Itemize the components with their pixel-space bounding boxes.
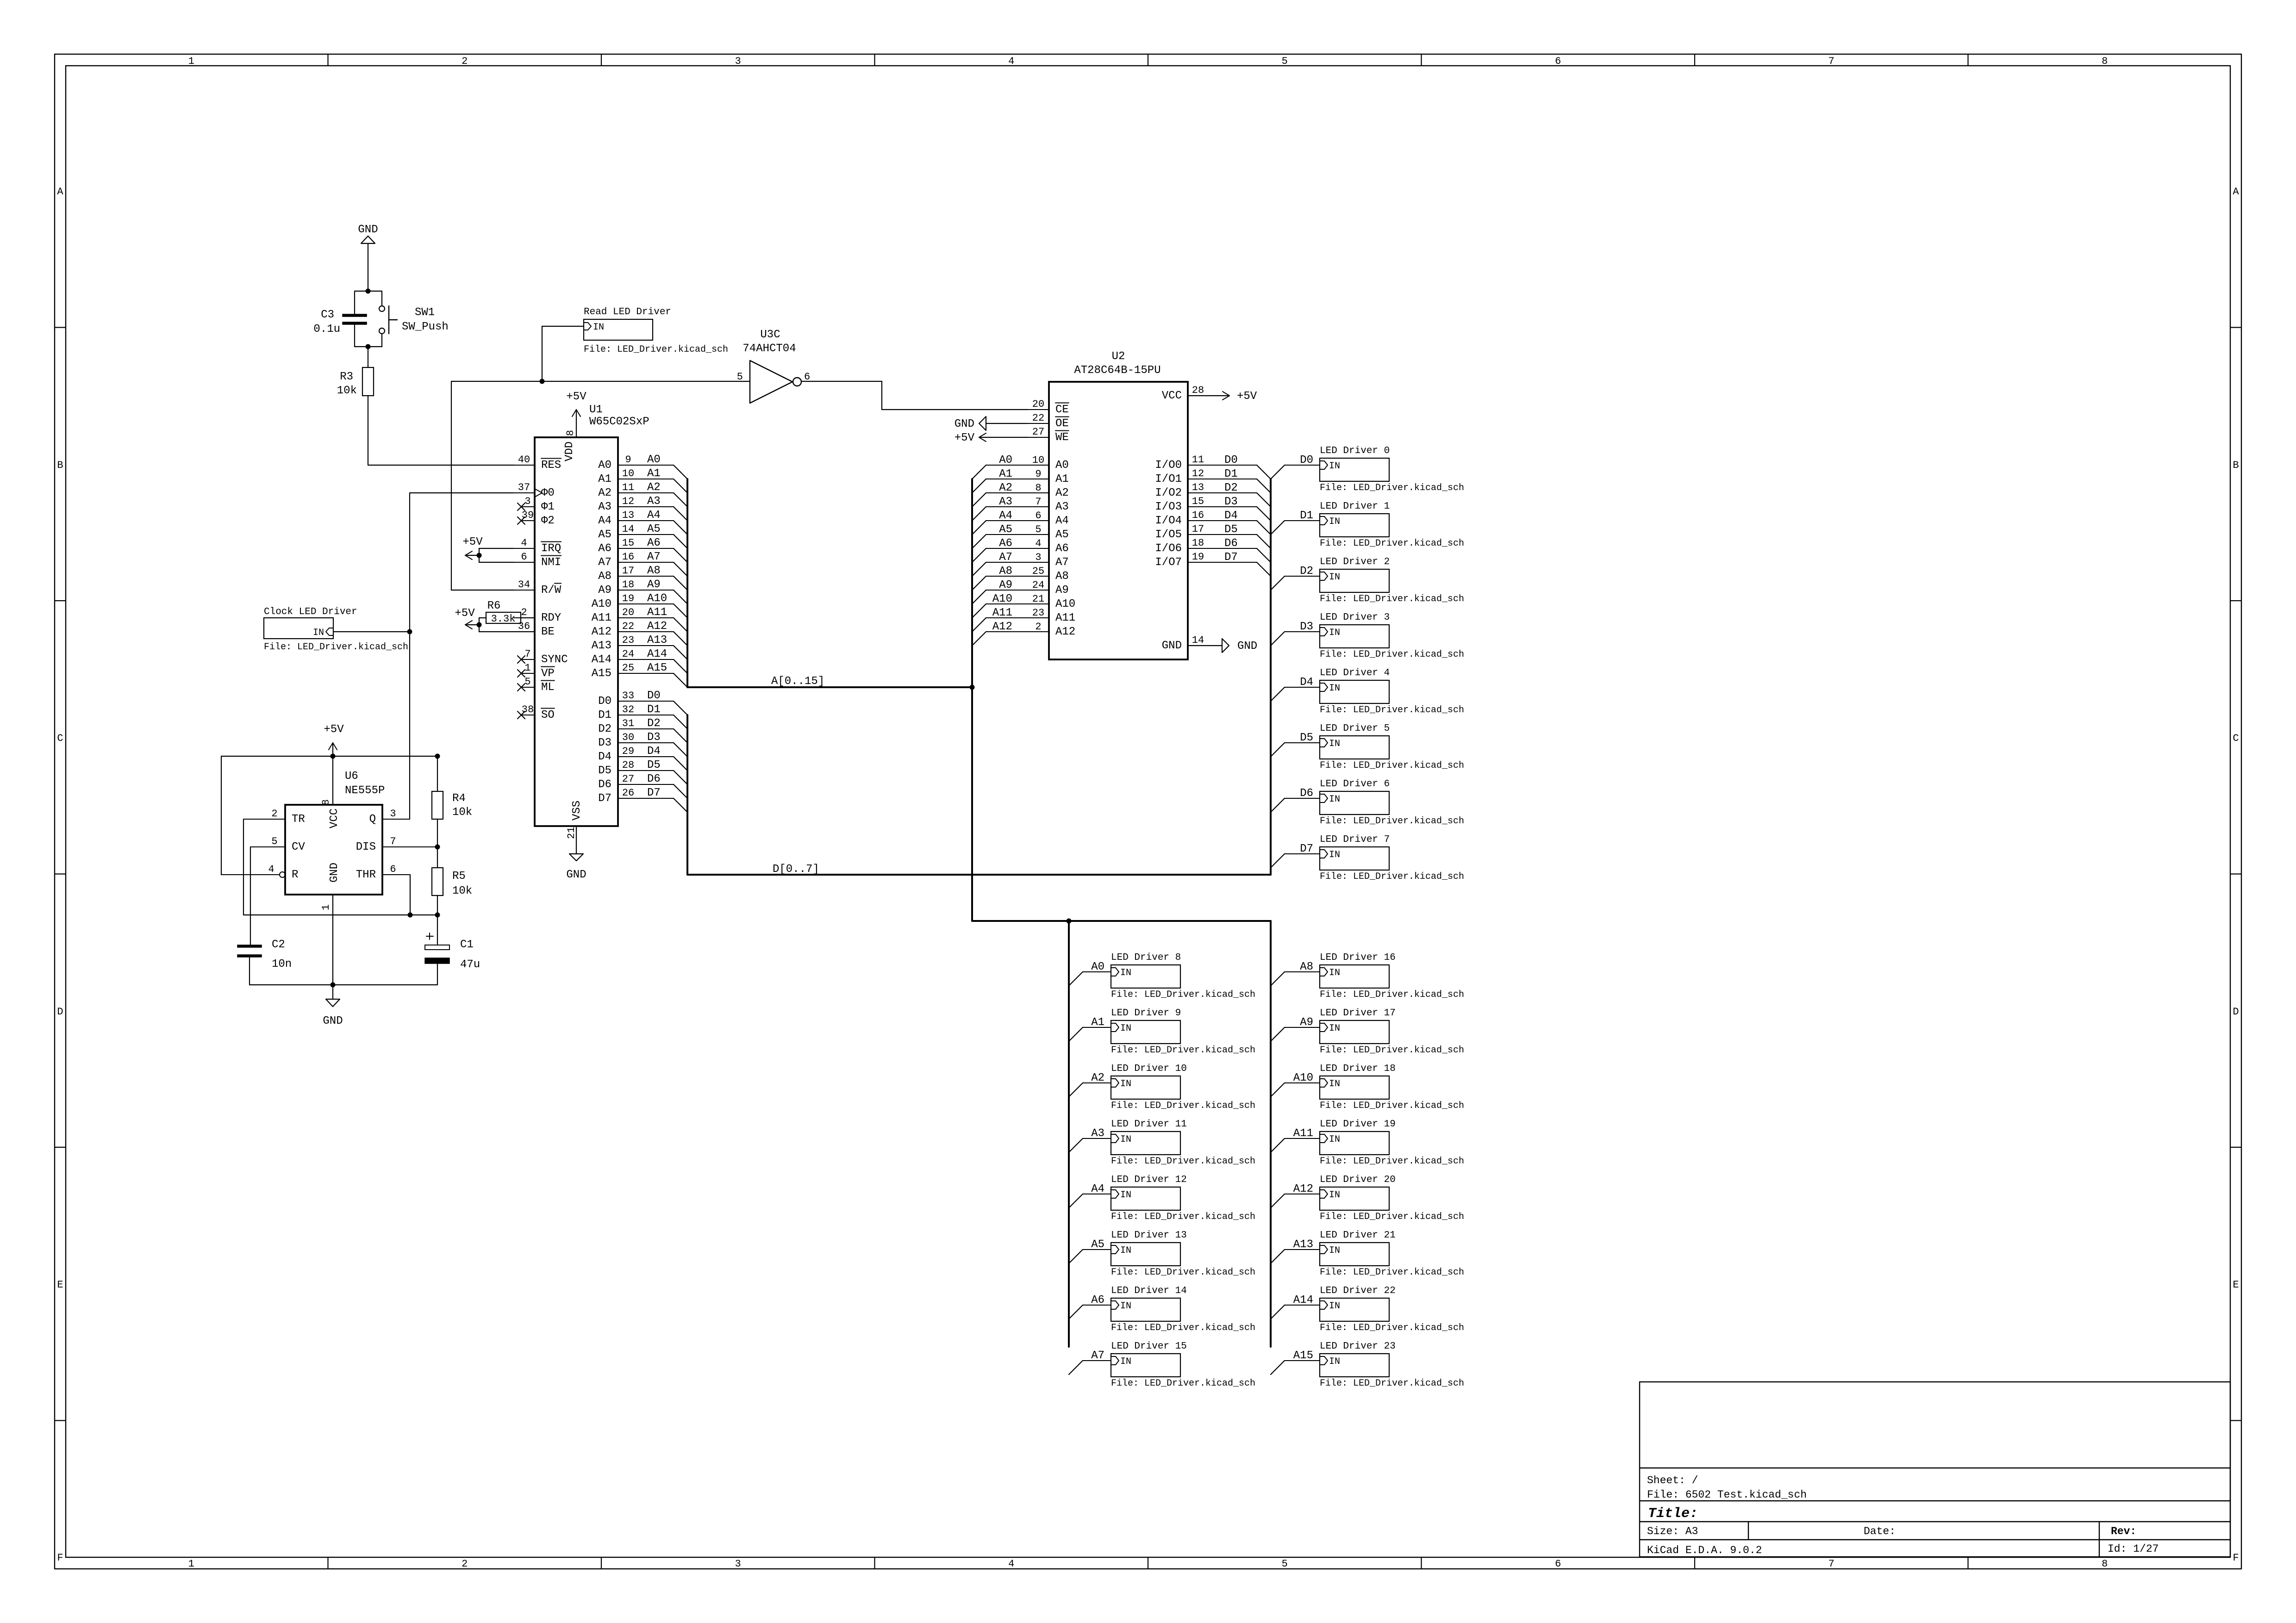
U1 pin 9 A0 <box>598 454 687 479</box>
svg-text:+5V: +5V <box>324 723 344 736</box>
sheet LED Driver 23 <box>1320 1341 1464 1389</box>
U1 pin 23 A13 <box>592 634 687 659</box>
svg-text:RES: RES <box>541 459 561 472</box>
svg-text:74AHCT04: 74AHCT04 <box>742 342 796 355</box>
svg-text:A7: A7 <box>999 551 1012 564</box>
svg-text:IN: IN <box>1120 968 1131 978</box>
U1 pin 2 RDY <box>514 607 561 624</box>
svg-text:GND: GND <box>323 1015 343 1027</box>
svg-text:D2: D2 <box>1224 482 1238 494</box>
U1 pin 37 Φ0 <box>514 482 555 499</box>
U6 pin 6 THR <box>356 864 410 881</box>
svg-text:D1: D1 <box>647 703 661 716</box>
wire inverter input <box>451 381 750 382</box>
wire RES net <box>368 465 514 466</box>
svg-text:U6: U6 <box>345 770 358 783</box>
svg-text:10: 10 <box>622 468 634 479</box>
svg-text:3: 3 <box>735 56 741 67</box>
U2 pin 25 A8 <box>972 565 1069 590</box>
resistor R5 10k <box>432 868 472 897</box>
svg-text:IRQ: IRQ <box>541 542 561 555</box>
svg-text:IN: IN <box>1329 628 1340 638</box>
svg-text:R4: R4 <box>452 792 466 805</box>
svg-text:LED Driver 20: LED Driver 20 <box>1320 1175 1396 1185</box>
svg-text:D7: D7 <box>1300 843 1313 855</box>
svg-text:26: 26 <box>622 787 634 799</box>
svg-text:5: 5 <box>524 676 530 688</box>
svg-text:4: 4 <box>1008 1558 1014 1570</box>
svg-text:I/O7: I/O7 <box>1155 556 1182 569</box>
U2 pin 18 I/O6 <box>1155 537 1271 562</box>
svg-text:Title:: Title: <box>1648 1506 1698 1522</box>
svg-text:A0: A0 <box>1091 961 1104 973</box>
resistor R4 10k <box>432 756 472 819</box>
svg-text:A1: A1 <box>647 467 661 480</box>
svg-text:A11: A11 <box>647 606 667 619</box>
U6 pin 5 CV <box>250 836 305 853</box>
junction DIS <box>435 845 440 850</box>
svg-text:A6: A6 <box>647 537 661 549</box>
U2 pin 20 CE <box>1028 398 1069 416</box>
svg-text:A12: A12 <box>592 626 611 638</box>
svg-text:16: 16 <box>1192 510 1204 521</box>
svg-text:28: 28 <box>622 759 634 771</box>
U1 pin 31 D2 <box>598 717 687 743</box>
svg-text:GND: GND <box>1237 640 1257 653</box>
svg-text:LED Driver 17: LED Driver 17 <box>1320 1008 1396 1019</box>
svg-text:C2: C2 <box>272 939 285 951</box>
U1 pin 33 D0 <box>598 690 687 715</box>
svg-text:30: 30 <box>622 732 634 743</box>
svg-text:DIS: DIS <box>356 841 376 853</box>
U1 pin 39 Φ2 <box>518 510 555 527</box>
svg-text:IN: IN <box>1329 850 1340 860</box>
svg-text:B: B <box>2233 460 2239 471</box>
svg-text:R3: R3 <box>340 371 353 383</box>
svg-text:D7: D7 <box>647 787 661 799</box>
svg-text:D0: D0 <box>647 690 661 702</box>
power symbol GND at OE <box>955 417 1028 430</box>
wire A8 to LED Driver 16 <box>1271 961 1320 986</box>
svg-text:1: 1 <box>320 904 332 910</box>
sheet LED Driver 16 <box>1320 952 1464 1000</box>
svg-text:+5V: +5V <box>955 432 975 444</box>
svg-text:19: 19 <box>1192 551 1204 563</box>
U1 pin 8 VDD <box>563 417 576 461</box>
svg-text:A13: A13 <box>647 634 667 647</box>
svg-text:CV: CV <box>292 841 305 853</box>
junction clock sheet <box>407 629 412 634</box>
wire A1 to LED Driver 9 <box>1069 1016 1111 1041</box>
svg-text:D6: D6 <box>1300 787 1313 800</box>
svg-text:SO: SO <box>541 709 555 721</box>
junction THR/TR <box>408 913 413 918</box>
svg-text:25: 25 <box>622 662 634 674</box>
svg-text:A13: A13 <box>1293 1238 1313 1251</box>
svg-text:23: 23 <box>622 634 634 646</box>
+5V tie IRQ/NMI <box>462 536 514 562</box>
sheet LED Driver 1 <box>1320 501 1464 549</box>
svg-text:39: 39 <box>522 510 534 521</box>
svg-text:10k: 10k <box>452 806 472 819</box>
svg-text:LED Driver 1: LED Driver 1 <box>1320 501 1390 512</box>
svg-text:File: LED_Driver.kicad_sch: File: LED_Driver.kicad_sch <box>1111 1323 1255 1333</box>
svg-text:D1: D1 <box>1224 468 1238 480</box>
svg-text:A9: A9 <box>598 584 611 597</box>
U1 pin 36 BE <box>514 621 555 638</box>
svg-text:File: LED_Driver.kicad_sch: File: LED_Driver.kicad_sch <box>1320 1212 1464 1222</box>
svg-text:GND: GND <box>566 869 586 881</box>
svg-text:IN: IN <box>1329 1245 1340 1256</box>
svg-text:I/O6: I/O6 <box>1155 542 1182 555</box>
svg-text:8: 8 <box>320 799 332 805</box>
svg-text:A2: A2 <box>1091 1072 1104 1084</box>
svg-text:6: 6 <box>1555 56 1561 67</box>
wire R/W vertical <box>451 381 452 590</box>
U1 pin 1 VP <box>518 662 555 680</box>
svg-text:A2: A2 <box>647 481 661 494</box>
svg-text:File: LED_Driver.kicad_sch: File: LED_Driver.kicad_sch <box>1320 483 1464 493</box>
svg-text:47u: 47u <box>460 958 480 971</box>
svg-text:11: 11 <box>622 482 634 493</box>
wire +5V rail <box>221 756 437 757</box>
svg-text:A1: A1 <box>598 473 611 485</box>
junction A bus <box>970 685 975 690</box>
svg-text:D: D <box>2233 1006 2239 1018</box>
wire A14 to LED Driver 22 <box>1271 1294 1320 1319</box>
cpu U1 W65C02SxP body <box>535 404 649 826</box>
wire D6 to LED Driver 6 <box>1271 787 1320 812</box>
svg-text:A11: A11 <box>592 612 611 624</box>
svg-text:A2: A2 <box>1055 487 1069 499</box>
svg-text:IN: IN <box>1120 1245 1131 1256</box>
U6 pin 4 R (inverted) <box>221 864 298 881</box>
svg-text:File: LED_Driver.kicad_sch: File: LED_Driver.kicad_sch <box>1320 1378 1464 1389</box>
svg-text:Q: Q <box>369 813 376 826</box>
U2 pin 12 I/O1 <box>1155 468 1271 493</box>
svg-text:D7: D7 <box>1224 551 1238 564</box>
sheet LED Driver 19 <box>1320 1119 1464 1167</box>
svg-text:I/O1: I/O1 <box>1155 473 1182 485</box>
U6 pin 7 DIS <box>356 836 437 853</box>
svg-text:D0: D0 <box>1300 454 1313 466</box>
svg-text:24: 24 <box>1032 579 1044 591</box>
svg-text:C: C <box>2233 733 2239 744</box>
svg-text:I/O5: I/O5 <box>1155 529 1182 541</box>
timer U6 NE555P body <box>285 770 385 895</box>
svg-text:2: 2 <box>1035 621 1041 633</box>
U2 pin 15 I/O3 <box>1155 496 1271 521</box>
svg-text:4: 4 <box>1008 56 1014 67</box>
wire A4 to LED Driver 12 <box>1069 1183 1111 1208</box>
svg-text:A10: A10 <box>647 592 667 605</box>
svg-text:File: LED_Driver.kicad_sch: File: LED_Driver.kicad_sch <box>584 344 728 355</box>
svg-text:File: LED_Driver.kicad_sch: File: LED_Driver.kicad_sch <box>1320 1323 1464 1333</box>
svg-text:File: LED_Driver.kicad_sch: File: LED_Driver.kicad_sch <box>1111 989 1255 1000</box>
svg-text:SW1: SW1 <box>415 306 435 319</box>
U2 pin 6 A4 <box>972 510 1069 535</box>
svg-text:A11: A11 <box>1055 612 1075 624</box>
svg-text:40: 40 <box>518 454 530 466</box>
svg-text:A1: A1 <box>999 468 1012 480</box>
svg-text:LED Driver 15: LED Driver 15 <box>1111 1341 1187 1352</box>
junction ground rail <box>331 983 336 988</box>
svg-text:D5: D5 <box>1300 732 1313 744</box>
svg-text:5: 5 <box>1282 56 1288 67</box>
svg-text:A12: A12 <box>1055 626 1075 638</box>
U1 pin 40 RES <box>514 454 561 472</box>
svg-text:15: 15 <box>622 537 634 549</box>
U1 pin 11 A2 <box>598 481 687 507</box>
svg-text:U3C: U3C <box>760 329 780 341</box>
wire clock sheet to clock net <box>333 631 410 632</box>
wire A9 to LED Driver 17 <box>1271 1016 1320 1041</box>
svg-text:A5: A5 <box>1055 529 1069 541</box>
svg-text:D3: D3 <box>1224 496 1238 508</box>
svg-text:W65C02SxP: W65C02SxP <box>589 416 649 428</box>
svg-text:LED Driver 5: LED Driver 5 <box>1320 723 1390 734</box>
ground symbol at U6 <box>323 985 343 1027</box>
U2 pin 11 I/O0 <box>1155 454 1271 479</box>
title block <box>1640 1382 2230 1557</box>
svg-text:3: 3 <box>524 496 530 507</box>
svg-text:D1: D1 <box>1300 510 1313 522</box>
wire phi0 net vertical to 555 Q <box>409 493 410 819</box>
svg-text:A5: A5 <box>999 523 1012 536</box>
U2 pin 28 VCC / +5V <box>1162 385 1257 403</box>
svg-text:6: 6 <box>521 551 527 563</box>
svg-text:LED Driver 7: LED Driver 7 <box>1320 834 1390 845</box>
svg-text:D6: D6 <box>598 778 611 791</box>
U2 pin 5 A5 <box>972 523 1069 548</box>
svg-text:LED Driver 6: LED Driver 6 <box>1320 779 1390 790</box>
wire A15 to LED Driver 23 <box>1271 1349 1320 1374</box>
sheet LED Driver 9 <box>1111 1008 1255 1056</box>
svg-text:LED Driver 19: LED Driver 19 <box>1320 1119 1396 1130</box>
svg-text:D1: D1 <box>598 709 611 721</box>
svg-text:SYNC: SYNC <box>541 653 568 666</box>
capacitor C2 10n <box>237 939 292 985</box>
wire A13 to LED Driver 21 <box>1271 1238 1320 1263</box>
svg-text:D4: D4 <box>598 751 611 763</box>
wire R to +5V rail <box>221 756 222 875</box>
svg-text:21: 21 <box>1032 593 1044 605</box>
wire C3-SW1 bottom <box>355 346 382 347</box>
svg-text:19: 19 <box>622 593 634 604</box>
svg-text:RDY: RDY <box>541 612 561 624</box>
U1 pin 20 A11 <box>592 606 687 632</box>
wire R4-R5 <box>437 819 438 868</box>
svg-text:20: 20 <box>1032 398 1044 410</box>
svg-text:3: 3 <box>735 1558 741 1570</box>
svg-text:18: 18 <box>1192 537 1204 549</box>
svg-text:D5: D5 <box>1224 523 1238 536</box>
svg-text:A8: A8 <box>999 565 1012 578</box>
svg-text:I/O4: I/O4 <box>1155 515 1182 527</box>
svg-text:LED Driver 2: LED Driver 2 <box>1320 557 1390 567</box>
svg-text:IN: IN <box>1329 968 1340 978</box>
svg-text:7: 7 <box>524 648 530 660</box>
wire jog down to CE <box>881 381 882 410</box>
svg-text:LED Driver 14: LED Driver 14 <box>1111 1286 1187 1296</box>
svg-text:IN: IN <box>1329 683 1340 694</box>
svg-text:Rev:: Rev: <box>2111 1525 2136 1537</box>
svg-text:33: 33 <box>622 690 634 702</box>
svg-text:A12: A12 <box>992 621 1012 633</box>
+5V tie RDY/BE <box>455 607 481 629</box>
svg-text:A12: A12 <box>1293 1183 1313 1195</box>
svg-text:A3: A3 <box>1055 501 1069 513</box>
svg-text:5: 5 <box>737 371 743 383</box>
svg-text:A15: A15 <box>592 667 611 680</box>
svg-text:A14: A14 <box>1293 1294 1313 1306</box>
svg-text:3.3k: 3.3k <box>491 613 516 625</box>
resistor R6 3.3k <box>479 600 535 632</box>
wire to R3 <box>368 347 368 367</box>
svg-text:14: 14 <box>1192 634 1204 646</box>
svg-text:D5: D5 <box>647 759 661 771</box>
svg-text:File: LED_Driver.kicad_sch: File: LED_Driver.kicad_sch <box>1320 816 1464 827</box>
wire A3 to LED Driver 11 <box>1069 1127 1111 1152</box>
svg-text:File: LED_Driver.kicad_sch: File: LED_Driver.kicad_sch <box>1320 538 1464 549</box>
wire A2 to LED Driver 10 <box>1069 1072 1111 1097</box>
svg-text:A12: A12 <box>647 620 667 633</box>
sheet LED Driver 10 <box>1111 1063 1255 1111</box>
wire read sheet drop <box>542 326 543 381</box>
sheet LED Driver 4 <box>1320 668 1464 715</box>
svg-text:IN: IN <box>1329 794 1340 805</box>
svg-text:GND: GND <box>328 863 341 883</box>
svg-text:IN: IN <box>1329 572 1340 583</box>
svg-text:U2: U2 <box>1112 350 1125 363</box>
svg-text:A8: A8 <box>1055 570 1069 583</box>
svg-text:IN: IN <box>1120 1023 1131 1034</box>
sheet LED Driver 15 <box>1111 1341 1255 1389</box>
sheet LED Driver 17 <box>1320 1008 1464 1056</box>
svg-text:I/O3: I/O3 <box>1155 501 1182 513</box>
svg-text:A6: A6 <box>1055 542 1069 555</box>
svg-text:A9: A9 <box>1300 1016 1313 1029</box>
svg-text:4: 4 <box>268 864 274 875</box>
svg-text:C3: C3 <box>321 309 334 321</box>
svg-text:D0: D0 <box>1224 454 1238 466</box>
svg-text:A4: A4 <box>1091 1183 1104 1195</box>
U2 pin 27 WE <box>1028 426 1069 444</box>
U1 pin 22 A12 <box>592 620 687 646</box>
wire inverter output <box>801 381 882 382</box>
svg-text:D7: D7 <box>598 792 611 805</box>
svg-text:8: 8 <box>565 430 576 436</box>
svg-text:5: 5 <box>271 836 277 847</box>
wire D5 to LED Driver 5 <box>1271 732 1320 757</box>
svg-text:File: LED_Driver.kicad_sch: File: LED_Driver.kicad_sch <box>1320 1101 1464 1111</box>
U1 pin 30 D3 <box>598 731 687 757</box>
svg-text:File: LED_Driver.kicad_sch: File: LED_Driver.kicad_sch <box>1320 1045 1464 1056</box>
wire D1 to LED Driver 1 <box>1271 510 1320 535</box>
bus A lower col1 vertical <box>1068 921 1070 1347</box>
svg-text:5: 5 <box>1282 1558 1288 1570</box>
svg-text:2: 2 <box>271 808 277 820</box>
bus A lower col2 vertical <box>1270 921 1272 1347</box>
svg-text:IN: IN <box>593 322 604 333</box>
svg-text:F: F <box>2233 1552 2239 1564</box>
svg-text:A15: A15 <box>1293 1349 1313 1362</box>
svg-text:+5V: +5V <box>566 391 586 403</box>
svg-text:Φ2: Φ2 <box>541 515 555 527</box>
svg-text:A0: A0 <box>1055 459 1069 472</box>
svg-text:LED Driver 8: LED Driver 8 <box>1111 952 1181 963</box>
svg-text:LED Driver 16: LED Driver 16 <box>1320 952 1396 963</box>
svg-text:13: 13 <box>622 510 634 521</box>
inverter U3C 74AHCT04 <box>737 329 810 403</box>
junction C3/SW1 bottom <box>366 344 371 349</box>
svg-text:1: 1 <box>188 1558 194 1570</box>
svg-text:LED Driver 22: LED Driver 22 <box>1320 1286 1396 1296</box>
svg-text:IN: IN <box>1120 1301 1131 1312</box>
svg-text:LED Driver 0: LED Driver 0 <box>1320 446 1390 456</box>
svg-text:C: C <box>57 733 63 744</box>
svg-text:File: LED_Driver.kicad_sch: File: LED_Driver.kicad_sch <box>1320 989 1464 1000</box>
svg-text:A8: A8 <box>598 570 611 583</box>
wire D4 to LED Driver 4 <box>1271 676 1320 701</box>
svg-text:LED Driver 4: LED Driver 4 <box>1320 668 1390 678</box>
svg-text:A4: A4 <box>647 509 661 522</box>
svg-text:7: 7 <box>390 836 396 847</box>
U2 pin 2 A12 <box>972 621 1075 646</box>
svg-text:VDD: VDD <box>563 442 576 461</box>
svg-text:IN: IN <box>1120 1134 1131 1145</box>
svg-text:A10: A10 <box>1055 598 1075 610</box>
svg-text:7: 7 <box>1828 1558 1834 1570</box>
svg-text:8: 8 <box>2102 56 2108 67</box>
U1 pin 6 NMI <box>514 551 561 569</box>
svg-text:A9: A9 <box>647 578 661 591</box>
svg-text:IN: IN <box>1329 1301 1340 1312</box>
svg-text:10k: 10k <box>337 385 357 397</box>
svg-text:A5: A5 <box>598 529 611 541</box>
wire C3-SW1 top <box>355 291 382 292</box>
svg-text:A3: A3 <box>1091 1127 1104 1140</box>
U1 pin 25 A15 <box>592 662 687 687</box>
svg-text:36: 36 <box>518 621 530 632</box>
U2 pin 10 A0 <box>972 454 1069 479</box>
svg-text:File: LED_Driver.kicad_sch: File: LED_Driver.kicad_sch <box>1111 1156 1255 1167</box>
sheet Read LED Driver <box>584 307 728 355</box>
svg-text:A3: A3 <box>999 496 1012 508</box>
svg-text:+5V: +5V <box>1237 390 1257 403</box>
svg-text:File: 6502 Test.kicad_sch: File: 6502 Test.kicad_sch <box>1647 1489 1807 1501</box>
svg-text:B: B <box>57 460 63 471</box>
svg-text:21: 21 <box>566 827 577 839</box>
svg-text:8: 8 <box>2102 1558 2108 1570</box>
wire A6 to LED Driver 14 <box>1069 1294 1111 1319</box>
U6 pin 1 GND <box>320 863 341 985</box>
U2 pin 13 I/O2 <box>1155 482 1271 507</box>
svg-text:16: 16 <box>622 551 634 563</box>
sheet LED Driver 5 <box>1320 723 1464 771</box>
svg-text:6: 6 <box>804 371 810 383</box>
svg-text:OE: OE <box>1055 417 1069 430</box>
svg-text:I/O2: I/O2 <box>1155 487 1182 499</box>
svg-text:LED Driver 10: LED Driver 10 <box>1111 1063 1187 1074</box>
svg-text:NMI: NMI <box>541 556 561 569</box>
switch SW1 SW_Push <box>379 291 449 347</box>
svg-text:BE: BE <box>541 626 555 638</box>
bus A lower horizontal <box>972 920 1271 922</box>
svg-text:7: 7 <box>1828 56 1834 67</box>
svg-text:D0: D0 <box>598 695 611 708</box>
svg-text:LED Driver 11: LED Driver 11 <box>1111 1119 1187 1130</box>
